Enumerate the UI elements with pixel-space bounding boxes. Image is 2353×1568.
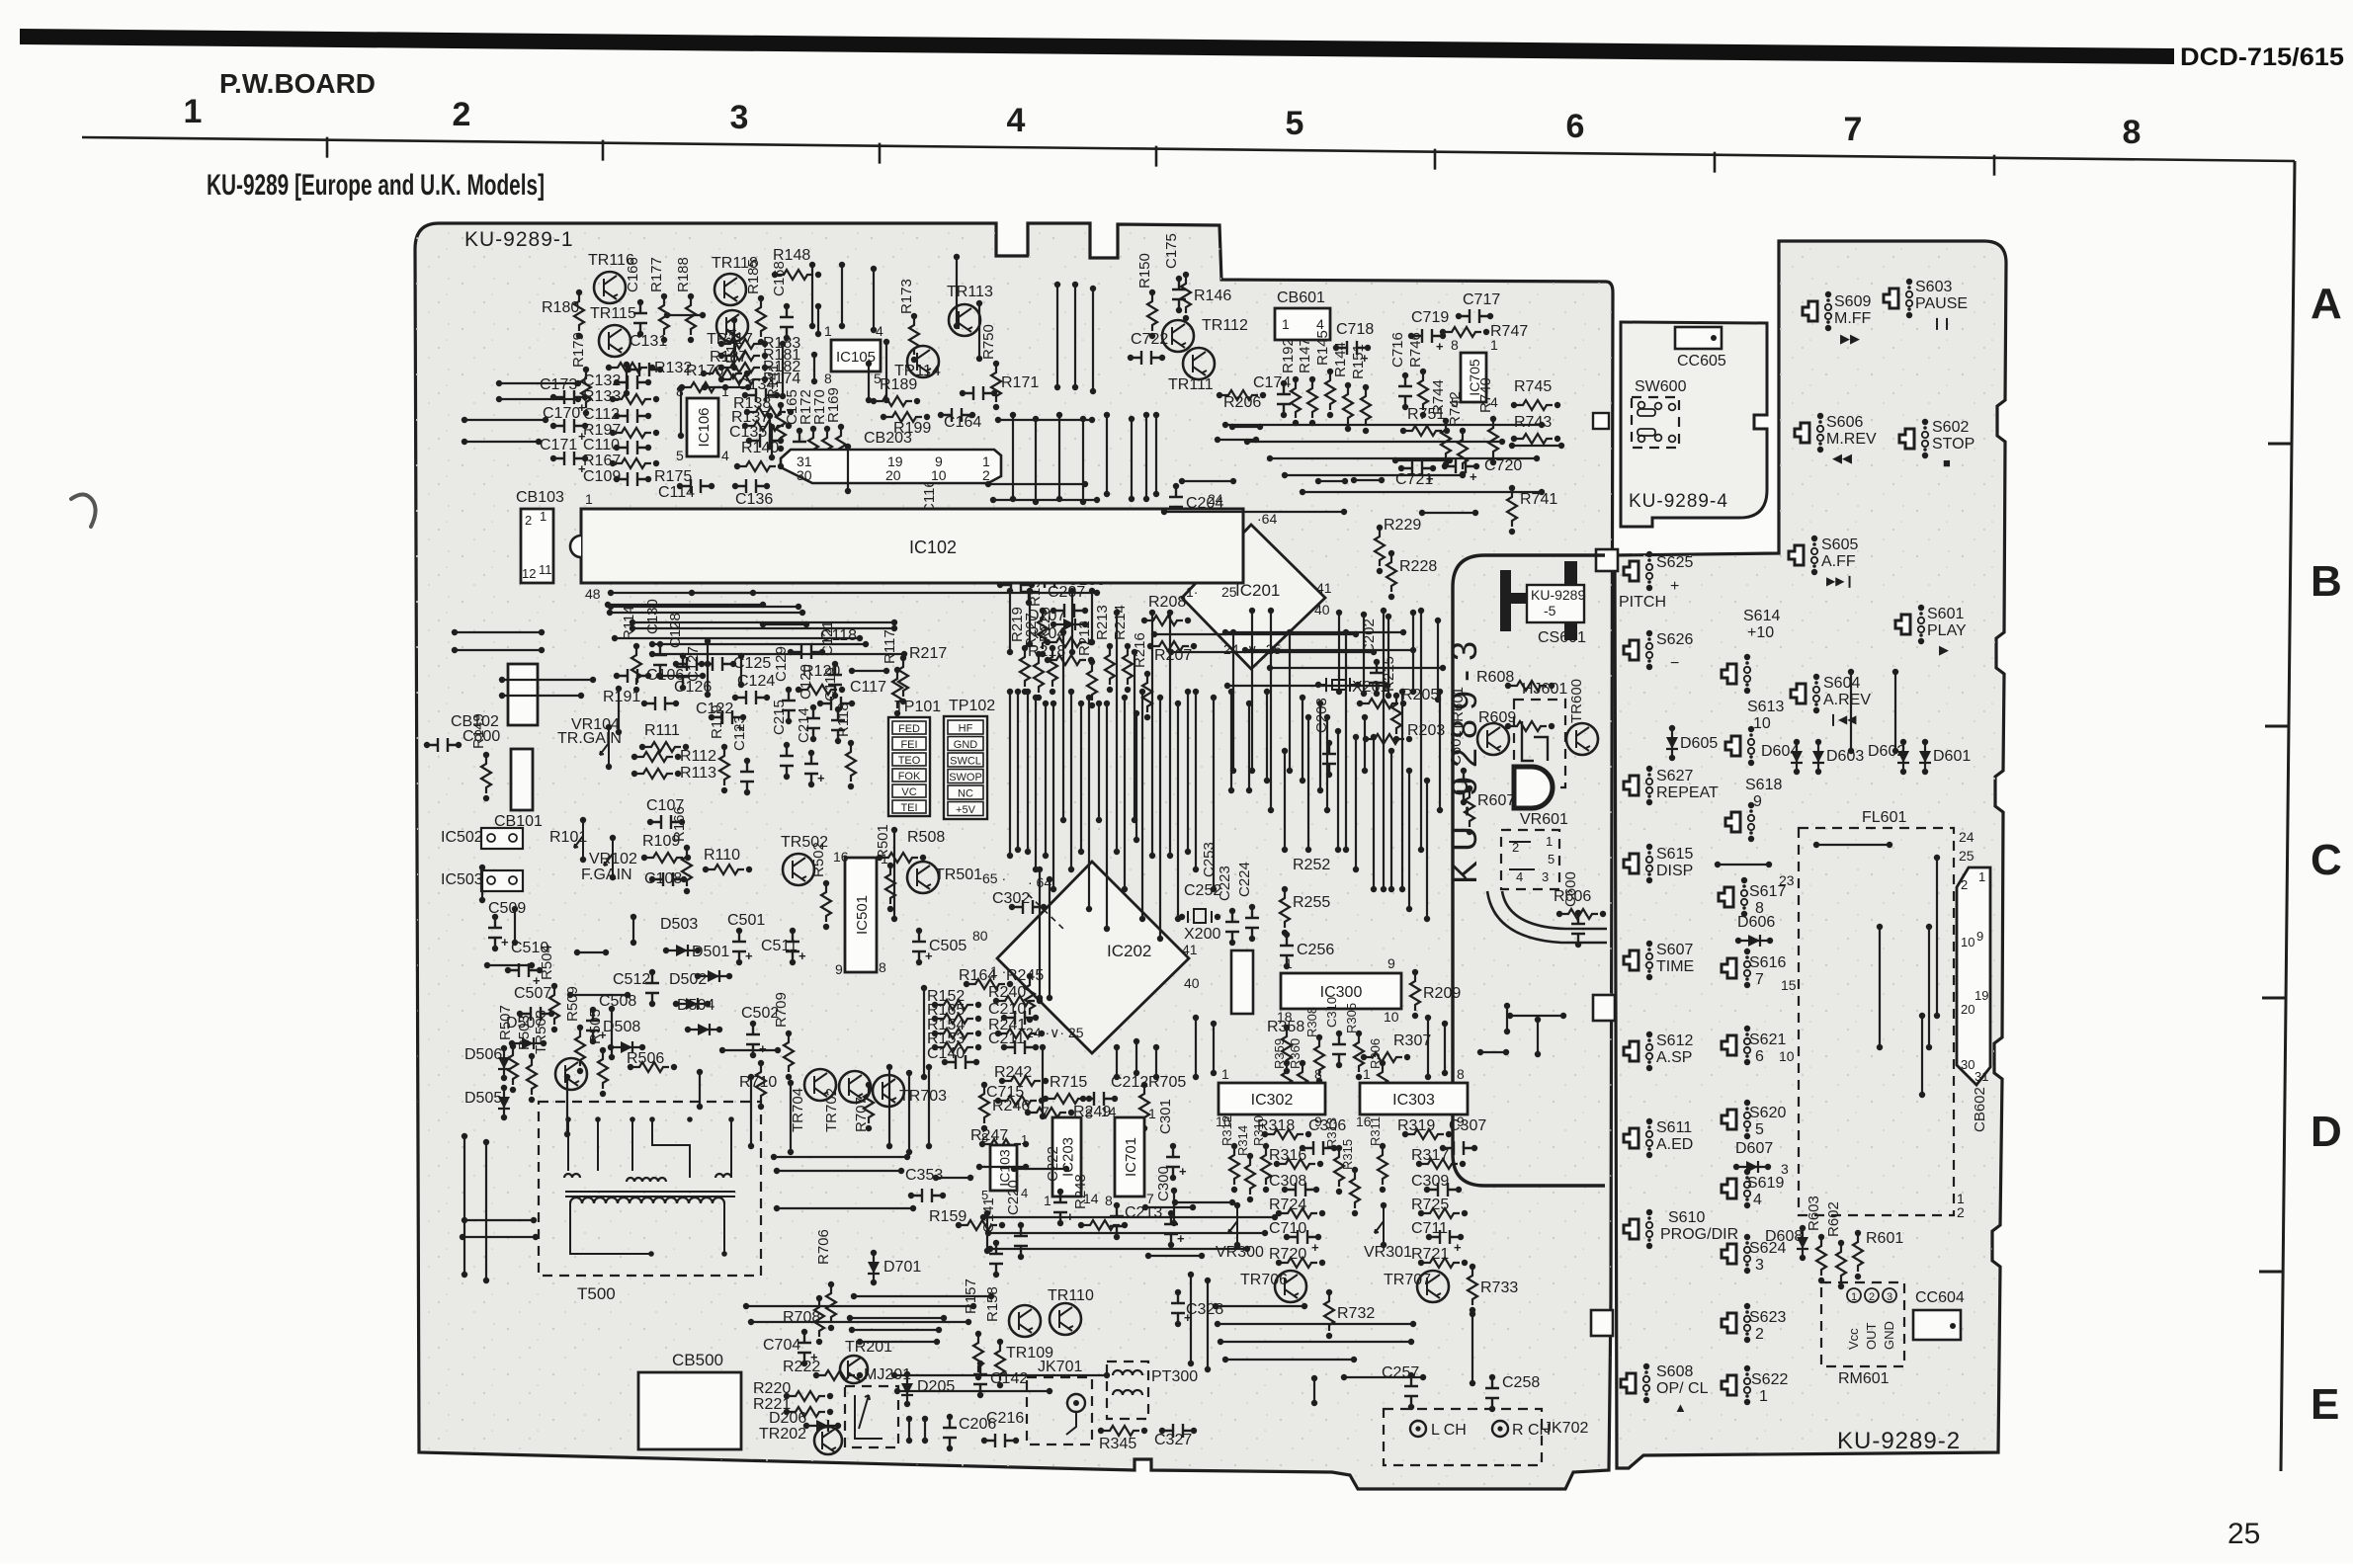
resistor R199 bbox=[881, 414, 886, 420]
svg-text:A: A bbox=[2311, 280, 2342, 328]
switch S617 bbox=[1719, 887, 1733, 907]
capacitor C206 bbox=[947, 1414, 953, 1420]
switch S621 bbox=[1722, 1035, 1736, 1055]
wire bbox=[1215, 1321, 1220, 1327]
resistor R607 bbox=[1467, 785, 1472, 791]
svg-text:D605: D605 bbox=[1680, 735, 1718, 752]
svg-text:SWOP: SWOP bbox=[949, 772, 982, 784]
svg-text:A.REV: A.REV bbox=[1823, 692, 1871, 708]
svg-text:R741: R741 bbox=[1520, 491, 1557, 508]
switch S607 bbox=[1624, 950, 1639, 970]
svg-text:KU-9289: KU-9289 bbox=[1531, 587, 1585, 603]
switch S623 bbox=[1722, 1313, 1736, 1333]
svg-text:25: 25 bbox=[1959, 848, 1975, 864]
svg-text:TR501: TR501 bbox=[935, 867, 982, 883]
svg-text:C719: C719 bbox=[1411, 309, 1449, 326]
svg-text:IC503: IC503 bbox=[441, 871, 483, 888]
svg-text:2: 2 bbox=[1961, 877, 1968, 892]
svg-text:R140: R140 bbox=[741, 440, 779, 456]
svg-text:S616: S616 bbox=[1749, 954, 1786, 971]
wire bbox=[574, 949, 580, 955]
svg-text:R502: R502 bbox=[810, 842, 827, 877]
svg-text:4: 4 bbox=[1021, 1186, 1028, 1200]
wire bbox=[1535, 1017, 1541, 1023]
svg-text:VC: VC bbox=[901, 786, 916, 798]
wire bbox=[1388, 748, 1394, 754]
capacitor C258 bbox=[1489, 1374, 1495, 1380]
svg-text:TP101: TP101 bbox=[894, 699, 941, 715]
channel tab square on KU-9289-4 bbox=[1593, 413, 1609, 429]
transformer secondary winding bbox=[570, 1197, 724, 1203]
svg-text:C301: C301 bbox=[1157, 1099, 1174, 1134]
diode D601 bbox=[1922, 739, 1928, 745]
svg-text:R504: R504 bbox=[539, 945, 555, 980]
slot bar 1 in KU-9289-3 bbox=[1500, 570, 1511, 631]
svg-text:R229: R229 bbox=[1384, 517, 1421, 534]
wire bbox=[512, 906, 518, 912]
resistor R249 bbox=[1025, 1110, 1031, 1115]
svg-text:R226: R226 bbox=[1037, 607, 1053, 642]
IC701 bbox=[1115, 1117, 1144, 1197]
svg-text:S623: S623 bbox=[1749, 1309, 1786, 1326]
svg-text:+: + bbox=[759, 1041, 767, 1056]
svg-text:R188: R188 bbox=[675, 257, 692, 292]
IC102 bbox=[581, 509, 1243, 583]
svg-text:1: 1 bbox=[1851, 1291, 1857, 1303]
svg-text:4: 4 bbox=[1753, 1192, 1762, 1208]
sub-board KU-9289-4 outline bbox=[1621, 322, 1767, 527]
grid ruler tick bbox=[1155, 146, 1158, 167]
wire bbox=[922, 1416, 928, 1422]
svg-text:C123: C123 bbox=[731, 715, 748, 751]
svg-text:12: 12 bbox=[522, 566, 536, 581]
svg-text:−: − bbox=[1670, 655, 1679, 672]
wire bbox=[1218, 1339, 1223, 1345]
wire bbox=[499, 677, 505, 683]
svg-text:IC502: IC502 bbox=[441, 829, 483, 846]
svg-text:5: 5 bbox=[676, 448, 684, 463]
wire bbox=[1104, 412, 1110, 418]
svg-text:R185: R185 bbox=[745, 259, 762, 294]
svg-text:R147: R147 bbox=[1297, 338, 1313, 373]
svg-text:1: 1 bbox=[585, 491, 593, 507]
switch S625 bbox=[1624, 561, 1639, 581]
wire bbox=[499, 693, 505, 699]
svg-text:C129: C129 bbox=[773, 646, 790, 682]
wire bbox=[452, 647, 458, 653]
wire bbox=[1033, 416, 1039, 422]
resistor R182 bbox=[718, 365, 724, 371]
svg-text:KU-9289-4: KU-9289-4 bbox=[1629, 491, 1728, 512]
wire bbox=[1037, 867, 1043, 872]
svg-text:+: + bbox=[1470, 469, 1477, 484]
wire bbox=[1919, 1013, 1925, 1019]
wire bbox=[605, 602, 611, 608]
svg-text:R246: R246 bbox=[992, 1098, 1030, 1114]
capacitor C328 bbox=[1175, 1289, 1181, 1295]
module RM601 dashed box bbox=[1821, 1282, 1904, 1366]
svg-text:2: 2 bbox=[1869, 1291, 1875, 1303]
svg-text:10: 10 bbox=[931, 467, 947, 483]
channel tab square 2 bbox=[1593, 995, 1615, 1021]
wire bbox=[1399, 689, 1405, 695]
svg-text:P.W.BOARD: P.W.BOARD bbox=[219, 68, 376, 99]
svg-text:TIME: TIME bbox=[1656, 958, 1694, 975]
wire bbox=[1007, 588, 1013, 594]
wire bbox=[630, 625, 635, 631]
svg-text:R209: R209 bbox=[1423, 985, 1461, 1002]
svg-text:C507: C507 bbox=[514, 985, 551, 1002]
svg-text:S609: S609 bbox=[1834, 293, 1871, 310]
IC105 bbox=[831, 340, 881, 371]
svg-text:TR115: TR115 bbox=[590, 305, 636, 322]
wire bbox=[1424, 778, 1430, 784]
svg-text:C300: C300 bbox=[1155, 1166, 1172, 1201]
svg-text:5: 5 bbox=[1286, 105, 1304, 142]
svg-text:R310: R310 bbox=[1251, 1115, 1266, 1146]
svg-text:R150: R150 bbox=[1136, 253, 1153, 289]
svg-text:16: 16 bbox=[833, 849, 849, 865]
svg-text:S601: S601 bbox=[1927, 606, 1964, 622]
svg-text:R247: R247 bbox=[970, 1127, 1008, 1144]
svg-text:D205: D205 bbox=[917, 1378, 955, 1395]
wire bbox=[649, 641, 655, 647]
svg-text:40: 40 bbox=[1184, 975, 1200, 991]
svg-text:20: 20 bbox=[1961, 1002, 1975, 1017]
svg-text:S619: S619 bbox=[1747, 1175, 1784, 1192]
switch S626 bbox=[1624, 640, 1639, 660]
svg-text:HJ601: HJ601 bbox=[1522, 681, 1567, 698]
svg-text:8: 8 bbox=[824, 371, 832, 386]
svg-text:PT300: PT300 bbox=[1151, 1368, 1198, 1385]
wire bbox=[748, 1319, 754, 1325]
svg-text:80: 80 bbox=[972, 928, 988, 944]
resistor R733 bbox=[1470, 1264, 1475, 1270]
svg-text:4: 4 bbox=[721, 448, 729, 463]
wire bbox=[1282, 472, 1288, 478]
wire bbox=[479, 865, 485, 870]
wire bbox=[1188, 1272, 1194, 1278]
svg-text:1: 1 bbox=[1021, 1132, 1028, 1147]
svg-text:R602: R602 bbox=[1825, 1201, 1842, 1237]
resistor R601 bbox=[1855, 1230, 1861, 1236]
svg-text:TR202: TR202 bbox=[759, 1426, 806, 1443]
svg-text:C222: C222 bbox=[1045, 1146, 1061, 1182]
svg-text:JK701: JK701 bbox=[1038, 1359, 1082, 1375]
svg-text:M.FF: M.FF bbox=[1834, 310, 1872, 327]
svg-text:IC202: IC202 bbox=[1107, 942, 1151, 960]
svg-text:11: 11 bbox=[539, 562, 552, 577]
wire bbox=[1926, 924, 1932, 930]
transistor TR109 bbox=[1009, 1305, 1041, 1337]
svg-text:C223: C223 bbox=[1217, 866, 1233, 901]
svg-text:23: 23 bbox=[1779, 872, 1795, 888]
IC201 quad flat package bbox=[1182, 525, 1325, 669]
wire bbox=[1305, 714, 1311, 720]
svg-text:R151: R151 bbox=[1350, 344, 1367, 379]
wire bbox=[921, 985, 927, 991]
svg-text:R110: R110 bbox=[704, 847, 740, 864]
switch S620 bbox=[1722, 1110, 1736, 1129]
wire bbox=[649, 651, 655, 657]
wire bbox=[1080, 416, 1086, 422]
wire bbox=[1089, 588, 1095, 594]
transformer primary winding bbox=[568, 1119, 731, 1171]
svg-text:1: 1 bbox=[540, 509, 546, 524]
svg-text:D601: D601 bbox=[1933, 748, 1971, 765]
resistor R732 bbox=[1326, 1289, 1332, 1295]
svg-text:SW600: SW600 bbox=[1635, 378, 1687, 395]
svg-text:30: 30 bbox=[1961, 1057, 1975, 1072]
wire bbox=[1078, 701, 1084, 706]
svg-text:R345: R345 bbox=[1099, 1436, 1136, 1452]
wire bbox=[774, 1205, 780, 1211]
wire bbox=[1134, 710, 1139, 716]
wire bbox=[484, 962, 490, 968]
wire bbox=[1418, 608, 1424, 614]
svg-text:R117: R117 bbox=[882, 629, 898, 664]
switch S604 bbox=[1791, 684, 1806, 703]
svg-text:VR601: VR601 bbox=[1520, 811, 1568, 828]
switch S603 bbox=[1884, 289, 1898, 308]
svg-text:FL601: FL601 bbox=[1862, 809, 1906, 826]
wire bbox=[1246, 701, 1252, 706]
svg-text:R217: R217 bbox=[909, 645, 947, 662]
svg-text:TR111: TR111 bbox=[1168, 376, 1214, 393]
diode D605 bbox=[1669, 725, 1675, 731]
wire bbox=[906, 1416, 912, 1422]
svg-text:R745: R745 bbox=[1514, 378, 1552, 395]
switch S624 bbox=[1722, 1244, 1736, 1264]
wire bbox=[1435, 618, 1441, 623]
wire bbox=[1300, 489, 1305, 495]
wire bbox=[1419, 510, 1425, 516]
svg-text:IC303: IC303 bbox=[1392, 1092, 1435, 1109]
wire bbox=[1168, 649, 1174, 655]
wire bbox=[1179, 478, 1185, 484]
svg-text:3: 3 bbox=[1755, 1257, 1764, 1274]
wire bbox=[731, 317, 737, 323]
wire bbox=[678, 385, 684, 391]
svg-text:REPEAT: REPEAT bbox=[1656, 784, 1719, 801]
wire bbox=[1056, 412, 1062, 418]
wire bbox=[1040, 1044, 1046, 1050]
switch S608 bbox=[1621, 1373, 1636, 1393]
svg-text:C310: C310 bbox=[1324, 997, 1339, 1028]
wire bbox=[1096, 701, 1102, 706]
wire bbox=[1104, 701, 1110, 706]
svg-text:+: + bbox=[1436, 339, 1444, 354]
svg-text:R175: R175 bbox=[654, 468, 692, 485]
svg-text:+: + bbox=[745, 949, 753, 963]
wire bbox=[656, 673, 662, 679]
wire bbox=[1007, 689, 1013, 695]
svg-text:S626: S626 bbox=[1656, 631, 1693, 648]
grid ruler tick bbox=[602, 140, 605, 161]
wire bbox=[460, 1234, 465, 1240]
svg-text:R508: R508 bbox=[907, 829, 945, 846]
wire bbox=[1300, 695, 1305, 701]
resistor R209 bbox=[1412, 969, 1418, 975]
svg-text:C211: C211 bbox=[988, 1031, 1025, 1047]
wire bbox=[845, 444, 851, 450]
svg-text:7: 7 bbox=[1755, 971, 1764, 988]
svg-text:R315: R315 bbox=[1340, 1139, 1355, 1170]
svg-text:C721: C721 bbox=[1395, 471, 1433, 488]
svg-text:31: 31 bbox=[1975, 1069, 1988, 1084]
wire bbox=[851, 1293, 857, 1299]
svg-text:1: 1 bbox=[1490, 337, 1498, 353]
wire bbox=[1050, 701, 1056, 706]
svg-text:R503: R503 bbox=[516, 1015, 533, 1050]
svg-text:D607: D607 bbox=[1735, 1140, 1773, 1157]
svg-text:D603: D603 bbox=[1826, 748, 1864, 765]
wire bbox=[891, 1372, 897, 1378]
svg-text:24: 24 bbox=[1959, 829, 1975, 845]
wire bbox=[1033, 695, 1039, 701]
svg-text:R228: R228 bbox=[1399, 558, 1437, 575]
wire bbox=[926, 1064, 932, 1070]
svg-text:C173: C173 bbox=[540, 376, 577, 393]
svg-text:D506: D506 bbox=[464, 1046, 502, 1063]
wire bbox=[1222, 1357, 1228, 1362]
resistor R181 bbox=[718, 353, 724, 359]
grid ruler tick bbox=[1434, 149, 1437, 170]
main board KU-9289-1 outline bbox=[415, 223, 1613, 1489]
svg-text:1: 1 bbox=[1363, 1066, 1371, 1082]
svg-text:1: 1 bbox=[1221, 1066, 1229, 1082]
wire bbox=[1362, 714, 1368, 720]
slot bar 3 in KU-9289-3 bbox=[1564, 561, 1577, 640]
svg-text:30: 30 bbox=[797, 467, 812, 483]
svg-text:C131: C131 bbox=[630, 333, 667, 350]
jack R CH bbox=[1492, 1421, 1508, 1437]
wire bbox=[976, 300, 982, 306]
resistor R747 bbox=[1440, 329, 1446, 335]
svg-text:4: 4 bbox=[1007, 102, 1026, 139]
svg-text:IC302: IC302 bbox=[1251, 1092, 1294, 1109]
wire bbox=[1171, 1188, 1177, 1194]
capacitor C256 bbox=[1284, 932, 1290, 938]
svg-text:R180: R180 bbox=[542, 299, 579, 316]
wire bbox=[1043, 701, 1049, 706]
page frame right border bbox=[2281, 161, 2295, 1471]
IC705 bbox=[1461, 353, 1486, 402]
wire bbox=[1410, 610, 1416, 616]
IC302 bbox=[1219, 1083, 1325, 1114]
svg-text:+: + bbox=[1670, 578, 1679, 595]
wire bbox=[1153, 1044, 1159, 1050]
svg-text:9: 9 bbox=[1753, 793, 1762, 810]
svg-text:KU-9289-1: KU-9289-1 bbox=[464, 228, 574, 251]
wire bbox=[1381, 608, 1387, 614]
wire bbox=[1145, 1253, 1151, 1259]
wire bbox=[1222, 629, 1228, 635]
svg-text:PLAY: PLAY bbox=[1927, 622, 1967, 639]
svg-text:3: 3 bbox=[1781, 1161, 1789, 1177]
svg-text:·64: ·64 bbox=[1257, 511, 1277, 527]
svg-text:C175: C175 bbox=[1163, 233, 1180, 269]
svg-text:8: 8 bbox=[879, 959, 886, 975]
svg-text:6: 6 bbox=[1566, 108, 1585, 145]
svg-text:S613: S613 bbox=[1747, 699, 1784, 715]
wire bbox=[1015, 689, 1021, 695]
wire bbox=[1027, 588, 1033, 594]
IC202 quad flat package bbox=[997, 862, 1189, 1053]
slot bar 2 in KU-9289-3 bbox=[1511, 593, 1543, 604]
svg-text:C704: C704 bbox=[763, 1337, 800, 1354]
wire bbox=[1504, 1003, 1510, 1009]
wire bbox=[976, 1164, 982, 1170]
svg-text:T500: T500 bbox=[577, 1284, 616, 1303]
svg-text:C: C bbox=[2311, 836, 2342, 884]
switch S606 bbox=[1795, 423, 1809, 443]
grid ruler tick bbox=[1714, 152, 1717, 173]
wire bbox=[496, 396, 502, 402]
svg-text:SWCL: SWCL bbox=[950, 756, 981, 768]
transformer PT300 dashed box bbox=[1107, 1362, 1148, 1419]
wire bbox=[1813, 842, 1819, 848]
wire bbox=[1267, 665, 1273, 671]
svg-text:R307: R307 bbox=[1393, 1032, 1431, 1049]
svg-text:5: 5 bbox=[1548, 852, 1555, 867]
wire bbox=[1157, 695, 1163, 701]
svg-text:S603: S603 bbox=[1915, 279, 1952, 295]
svg-text:+5V: +5V bbox=[956, 804, 976, 816]
svg-text:CB601: CB601 bbox=[1277, 289, 1325, 306]
switch S609 bbox=[1803, 301, 1817, 321]
wire bbox=[1175, 701, 1181, 706]
wire bbox=[1193, 1015, 1199, 1021]
svg-text:C166: C166 bbox=[625, 257, 641, 292]
svg-text:R146: R146 bbox=[1194, 288, 1231, 304]
wire bbox=[771, 1154, 777, 1160]
svg-text:S604: S604 bbox=[1823, 675, 1860, 692]
switch S619 bbox=[1722, 1179, 1736, 1198]
wire bbox=[1336, 610, 1342, 616]
svg-text:TR503: TR503 bbox=[533, 1010, 549, 1054]
svg-text:R192: R192 bbox=[1280, 338, 1297, 373]
wire bbox=[1392, 457, 1398, 463]
svg-text:2: 2 bbox=[1755, 1326, 1764, 1343]
svg-text:9: 9 bbox=[1976, 929, 1983, 944]
svg-text:R601: R601 bbox=[1866, 1230, 1903, 1247]
svg-text:1: 1 bbox=[1759, 1388, 1768, 1405]
svg-text:TP102: TP102 bbox=[949, 698, 995, 714]
svg-text:25: 25 bbox=[1221, 584, 1237, 600]
wire bbox=[1507, 1013, 1513, 1019]
resistor R255 bbox=[1282, 886, 1288, 892]
svg-text:X200: X200 bbox=[1184, 926, 1220, 943]
svg-text:2: 2 bbox=[1957, 1204, 1965, 1220]
svg-text:14: 14 bbox=[1101, 1104, 1117, 1119]
transistor TR111 bbox=[1183, 348, 1215, 379]
wire bbox=[1149, 610, 1155, 616]
svg-text:STOP: STOP bbox=[1932, 436, 1975, 453]
wire bbox=[630, 914, 636, 920]
row tick bbox=[2259, 1271, 2283, 1274]
wire bbox=[891, 827, 897, 833]
wire bbox=[609, 1006, 615, 1012]
svg-text:R169: R169 bbox=[825, 387, 842, 423]
svg-text:R732: R732 bbox=[1337, 1305, 1375, 1322]
svg-text:1: 1 bbox=[184, 93, 203, 130]
svg-text:CC605: CC605 bbox=[1677, 353, 1726, 370]
wire bbox=[1211, 695, 1217, 701]
grid ruler tick bbox=[326, 137, 329, 158]
svg-text:S622: S622 bbox=[1751, 1371, 1788, 1388]
svg-text:D701: D701 bbox=[883, 1259, 921, 1276]
